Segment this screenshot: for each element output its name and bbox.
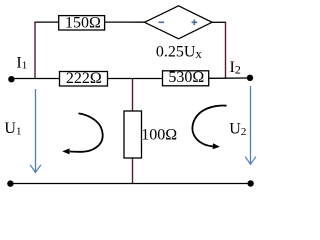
wire left vertical <box>34 22 36 80</box>
svg-text:150Ω: 150Ω <box>65 14 101 31</box>
dependent source plus sign <box>192 20 198 26</box>
resistor R 150ohm box <box>59 16 105 30</box>
svg-text:100Ω: 100Ω <box>141 127 177 144</box>
wire top-right horizontal <box>212 21 227 23</box>
mesh current arrow right loop <box>192 106 226 150</box>
svg-text:530Ω: 530Ω <box>168 69 204 86</box>
dependent source minus sign <box>158 21 164 23</box>
wire middle-right horizontal <box>208 77 250 79</box>
voltage arrow U1 <box>30 89 41 173</box>
svg-text:U1: U1 <box>4 120 21 137</box>
svg-text:U2: U2 <box>229 121 246 138</box>
wire bottom horizontal <box>10 183 250 185</box>
dependent source U1 diamond <box>145 6 213 39</box>
node terminal bottom-right <box>247 180 253 186</box>
wire middle-center horizontal <box>107 78 163 80</box>
mesh current arrow left loop <box>62 113 103 154</box>
resistor R 100ohm box <box>124 111 142 158</box>
svg-text:I2: I2 <box>230 59 241 76</box>
wire center vertical upper <box>132 79 134 112</box>
svg-text:222Ω: 222Ω <box>66 70 102 87</box>
resistor R 222ohm box <box>60 72 108 87</box>
resistor R 530ohm box <box>163 71 209 86</box>
voltage arrow U2 <box>245 86 256 165</box>
wire top-left horizontal <box>34 21 59 23</box>
node terminal top-left <box>8 76 14 82</box>
svg-text:I1: I1 <box>16 55 27 72</box>
node terminal bottom-left <box>7 180 13 186</box>
svg-text:0.25Ux: 0.25Ux <box>156 43 203 60</box>
wire middle-left horizontal <box>11 78 60 80</box>
node terminal top-right <box>247 75 253 81</box>
wire center vertical lower <box>132 158 134 184</box>
wire right vertical <box>225 22 227 79</box>
wire top-middle horizontal <box>104 21 145 23</box>
